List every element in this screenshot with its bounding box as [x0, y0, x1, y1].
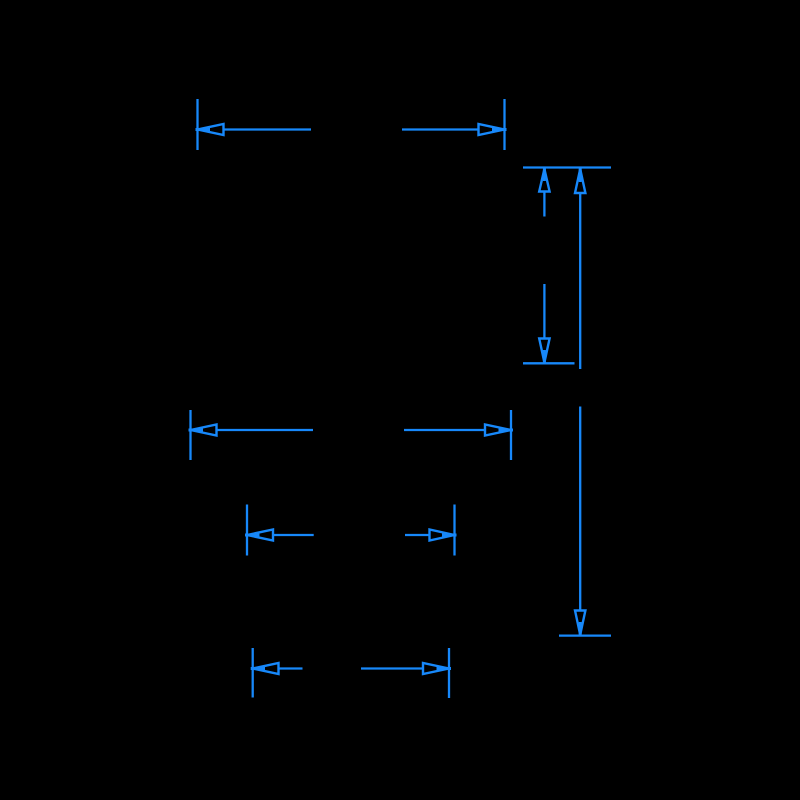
- dimension E line upper segment: [543, 192, 545, 217]
- dimension C extension line right: [453, 505, 455, 556]
- dimension F line upper segment: [579, 193, 581, 369]
- dimension E line lower segment: [543, 284, 545, 339]
- dimension EF shared top extension line: [523, 166, 611, 168]
- dimension C arrowhead right: [430, 530, 457, 541]
- dimension D extension line right: [448, 648, 450, 698]
- dimension D line left segment: [279, 667, 303, 669]
- dimension C line left segment: [273, 534, 314, 536]
- object silhouette: [189, 99, 611, 699]
- dimension D arrowhead left: [251, 663, 279, 674]
- dimension E arrowhead down: [539, 339, 549, 365]
- dimension C extension line left: [246, 505, 248, 556]
- dimension E bottom extension line: [523, 362, 575, 364]
- dimension A extension line left: [196, 99, 198, 150]
- dimension D line right segment: [361, 667, 423, 669]
- dimension F arrowhead up: [575, 168, 585, 194]
- dimension C line right segment: [405, 534, 430, 536]
- dimension A line left segment: [224, 128, 312, 130]
- dimension F arrowhead down: [575, 611, 585, 637]
- dimension B extension line left: [189, 410, 191, 460]
- dimension B line left segment: [217, 429, 314, 431]
- dimension A arrowhead right: [479, 124, 507, 135]
- dimension F bottom extension line: [559, 634, 611, 636]
- dimension F line lower segment: [579, 407, 581, 611]
- dimension B arrowhead right: [485, 425, 513, 436]
- dimension E arrowhead up: [539, 168, 549, 192]
- dimension B extension line right: [510, 410, 512, 460]
- dimension C arrowhead left: [245, 530, 273, 541]
- dimension D arrowhead right: [423, 663, 451, 674]
- dimension B line right segment: [404, 429, 485, 431]
- dimension A arrowhead left: [196, 124, 224, 135]
- dimension B arrowhead left: [189, 425, 217, 436]
- dimension A line right segment: [402, 128, 479, 130]
- dimension A extension line right: [503, 99, 505, 150]
- dimension D extension line left: [252, 648, 254, 698]
